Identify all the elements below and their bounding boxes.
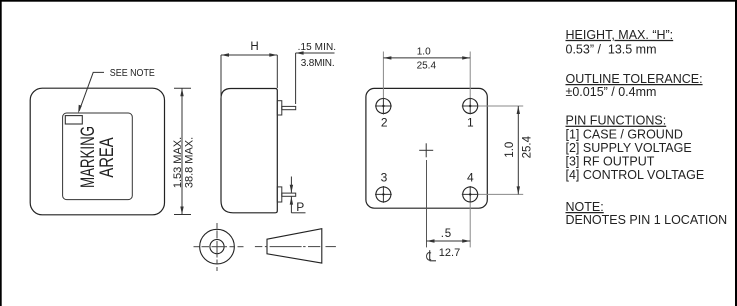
dimension text H [250,41,258,53]
dimension text 38.8 MAX. [184,137,196,188]
svg-text:4: 4 [467,171,474,185]
dimension text .5 [441,228,452,240]
dimension .15 MIN extension line [295,53,297,104]
dimension text 1.53 MAX. [172,137,184,188]
pin number 4 [467,171,474,185]
svg-text:.5: .5 [441,228,452,240]
pin taper detail outline [267,229,322,263]
dimension .15 MIN line with arrow [296,51,335,54]
package bottom view outline [366,88,487,208]
centerline symbol [427,250,436,261]
svg-text:P: P [296,200,304,214]
svg-text:DENOTES PIN 1 LOCATION: DENOTES PIN 1 LOCATION [566,213,728,227]
side view top pin seal [277,101,282,115]
svg-text:H: H [250,41,258,53]
sheet border top [0,0,737,2]
svg-text:1.53 MAX.: 1.53 MAX. [172,137,184,188]
svg-text:SEE NOTE: SEE NOTE [110,68,156,80]
svg-text:OUTLINE TOLERANCE:: OUTLINE TOLERANCE: [566,72,703,86]
marking area outline [63,113,133,200]
dimension H line [221,53,277,56]
pin number 1 [467,116,474,130]
pin bottom view vertical centerline [216,223,218,271]
dimension text 12.7 [439,247,460,259]
svg-text:.15 MIN.: .15 MIN. [298,42,337,53]
svg-text:38.8 MAX.: 38.8 MAX. [184,137,196,188]
svg-text:[2] SUPPLY VOLTAGE: [2] SUPPLY VOLTAGE [566,141,692,155]
pin bottom view inner circle [210,240,224,254]
svg-text:HEIGHT, MAX. “H”:: HEIGHT, MAX. “H”: [566,28,674,42]
note heading HEIGHT MAX H [566,28,674,42]
sheet border right [735,0,737,306]
svg-text:12.7: 12.7 [439,247,460,259]
dimension text P [296,200,304,214]
svg-text:2: 2 [381,116,388,130]
dimension text 1.0 top [417,47,431,58]
note text denotes pin 1 location [566,213,728,227]
svg-text:0.53” / 13.5 mm: 0.53” / 13.5 mm [566,43,657,57]
pin 1 circle [462,98,479,115]
svg-text:[4] CONTROL VOLTAGE: [4] CONTROL VOLTAGE [566,168,705,182]
svg-text:[1] CASE / GROUND: [1] CASE / GROUND [566,128,683,142]
side view bottom pin lead [282,193,296,196]
note pin 3 function [566,154,655,168]
bottom dimension extension lines [427,160,471,247]
dimension H extension lines [221,55,277,99]
dimension text 3.8MIN. [301,58,335,69]
dimension text 25.4 right [521,135,533,158]
pin number 2 [381,116,388,130]
dimension text .15 MIN. [298,42,337,53]
pin bottom view horizontal centerline [194,246,244,248]
svg-text:1.0: 1.0 [417,47,431,58]
label MARKING [78,126,99,188]
svg-text:3.8MIN.: 3.8MIN. [301,58,335,69]
right dimension line 1.0/25.4 [517,106,520,194]
bottom dimension line .5/12.7 [427,239,471,242]
svg-text:1.0: 1.0 [504,142,516,158]
package top view outline [30,88,164,215]
side view bottom pin seal [277,187,282,202]
note text tolerance value [566,85,657,99]
see note label [110,68,156,80]
dimension P upper arrow [290,177,293,193]
note pin 1 function [566,128,683,142]
note pin 4 function [566,168,705,182]
note heading NOTE [566,200,604,214]
dimension text 1.0 right [504,142,516,158]
side view top pin lead [282,106,296,109]
svg-text:25.4: 25.4 [417,61,437,72]
dimension text 25.4 top [417,61,437,72]
dimension P lower arrow and leader [290,197,306,213]
note text 0.53 / 13.5 mm [566,43,657,57]
svg-text:25.4: 25.4 [521,135,533,158]
note heading PIN FUNCTIONS [566,114,667,128]
pin number 3 [381,171,388,185]
top dimension extension lines [383,52,470,98]
note heading OUTLINE TOLERANCE [566,72,703,86]
label AREA [96,137,117,178]
svg-text:PIN FUNCTIONS:: PIN FUNCTIONS: [566,114,667,128]
svg-text:3: 3 [381,171,388,185]
pin bottom view outer circle [200,229,235,264]
pin 4 circle [462,186,479,203]
dimension 1.53/38.8 MAX line [180,88,183,214]
sheet border left [0,0,2,306]
package bottom view center cross [419,143,433,157]
svg-text:[3] RF OUTPUT: [3] RF OUTPUT [566,154,655,168]
package side view body [221,89,277,213]
right dimension extension lines [479,106,524,194]
see note leader wire [78,72,104,113]
svg-text:±0.015” / 0.4mm: ±0.015” / 0.4mm [566,85,657,99]
note pin 2 function [566,141,692,155]
pin 2 circle [375,98,392,115]
svg-text:1: 1 [467,116,474,130]
svg-text:AREA: AREA [96,137,117,178]
pin taper centerline [255,246,336,248]
top dimension line 1.0/25.4 [383,56,470,59]
pin 3 circle [375,186,392,203]
pin 1 marker rectangle [65,116,82,124]
dimension 1.53/38.8 MAX extension ticks [174,88,191,214]
